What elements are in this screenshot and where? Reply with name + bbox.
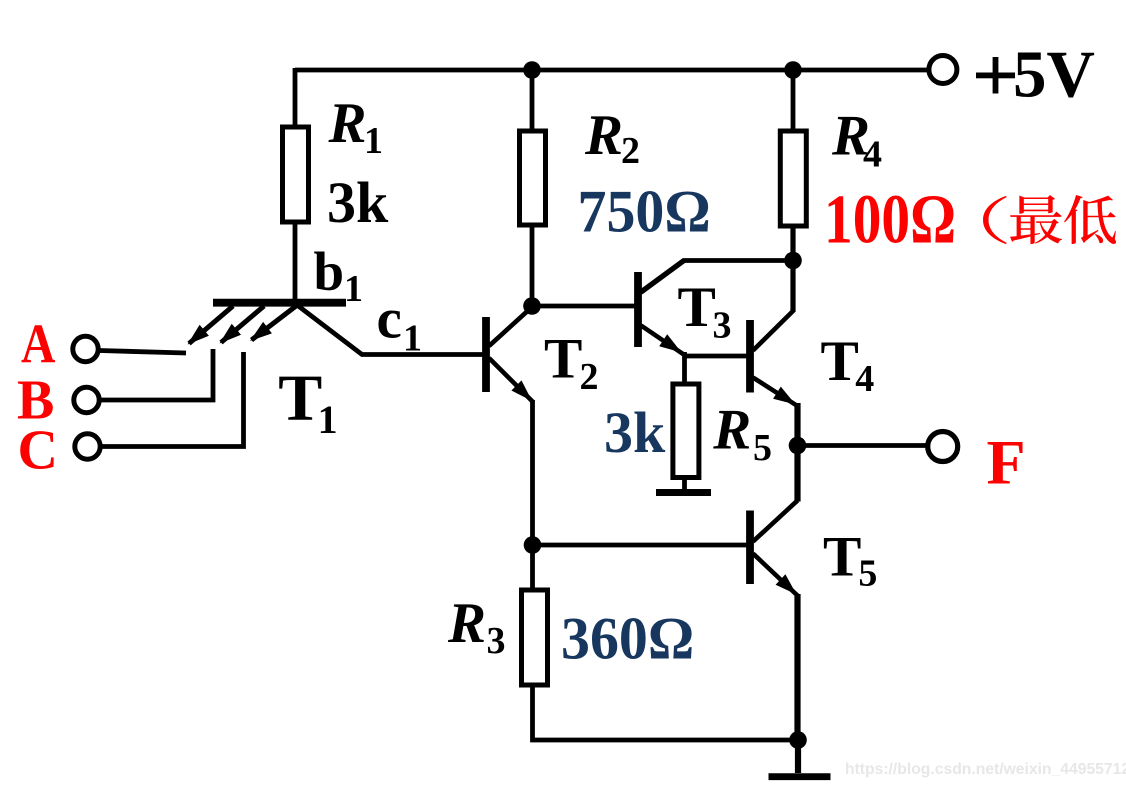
node T2 collector / R2 (523, 297, 541, 315)
label 750ohm (578, 178, 711, 245)
label c1 (377, 288, 423, 360)
svg-text:T: T (278, 362, 322, 435)
svg-text:R: R (447, 592, 486, 655)
wire input B (100, 349, 213, 400)
svg-text:5V: 5V (1013, 38, 1095, 112)
label T1 (278, 362, 337, 443)
transistor T2 collector (489, 307, 533, 347)
terminal +5V circle (929, 56, 957, 84)
svg-text:750Ω: 750Ω (578, 178, 711, 245)
label +5V (976, 38, 1095, 112)
svg-text:R: R (712, 399, 751, 462)
transistor T4 base bar (746, 320, 754, 393)
svg-text:2: 2 (580, 356, 599, 398)
svg-text:3: 3 (713, 305, 732, 347)
svg-text:R: R (584, 104, 623, 167)
label zui CJK (1010, 195, 1062, 244)
wire input A (99, 351, 186, 354)
svg-text:5: 5 (753, 427, 772, 469)
label 360ohm (561, 605, 694, 672)
terminal B circle (74, 387, 99, 412)
wire T4 emitter to output node (794, 403, 800, 446)
svg-text:c: c (377, 288, 402, 351)
wire R1 top lead (293, 68, 298, 127)
node T3 collector / R4 (784, 252, 802, 270)
wire T5 base node down to R3 (530, 545, 535, 589)
svg-text:4: 4 (863, 134, 882, 176)
svg-text:100Ω: 100Ω (824, 180, 956, 258)
label T5 (823, 526, 877, 595)
svg-text:C: C (18, 420, 58, 482)
transistor T5 emitter (753, 554, 799, 597)
label T4 (821, 330, 875, 400)
terminal F circle (928, 432, 958, 462)
wire input C (100, 352, 244, 447)
svg-text:360Ω: 360Ω (561, 605, 694, 672)
ground below R5 (656, 477, 711, 493)
wire T3 emitter node down to R5 (682, 352, 687, 384)
ground bottom (769, 773, 831, 780)
transistor T1 base bar (213, 299, 346, 307)
watermark (845, 761, 1126, 778)
svg-text:2: 2 (621, 130, 640, 172)
wire R2 bottom lead (530, 225, 535, 306)
wire T5 base node to T5 base (533, 543, 747, 548)
label B (17, 370, 54, 432)
svg-text:5: 5 (858, 553, 877, 595)
transistor T5 base bar (746, 511, 754, 585)
label R1 (328, 92, 384, 162)
transistor T3 emitter (641, 326, 685, 356)
svg-text:3k: 3k (604, 400, 666, 465)
label R4 (831, 105, 882, 176)
label T2 (544, 328, 599, 399)
resistor R1 3k body (283, 127, 309, 222)
svg-text:1: 1 (364, 120, 383, 162)
svg-text:https://blog.csdn.net/weixin_4: https://blog.csdn.net/weixin_44955712 (845, 761, 1126, 778)
wire T3 collector to R4 node (641, 261, 796, 293)
label C (18, 420, 58, 482)
wire T2 collector node to T3 base (532, 304, 635, 309)
label R2 (584, 104, 640, 172)
svg-text:T: T (823, 526, 861, 589)
svg-text:F: F (987, 427, 1026, 498)
svg-text:1: 1 (318, 397, 338, 442)
label R5 (712, 399, 772, 470)
label T3 (678, 276, 732, 347)
transistor T3 base bar (634, 272, 642, 347)
terminal C circle (75, 434, 100, 459)
wire ground stub below T5 (795, 740, 801, 773)
wire top +5V rail (295, 68, 929, 73)
wire T5 emitter down to ground node (794, 594, 800, 741)
wire node b1 to T2 base (c1 wire) (297, 305, 483, 355)
wire output node to terminal F (798, 443, 929, 448)
node output F (789, 437, 807, 455)
label 3k of R5 (604, 400, 666, 465)
svg-text:3: 3 (487, 620, 506, 662)
svg-text:A: A (21, 314, 56, 375)
transistor T3 collector (641, 261, 685, 293)
transistor T2 base bar (482, 317, 490, 392)
wire R4 bottom lead to T4 collector (790, 226, 795, 312)
label F (987, 427, 1026, 498)
resistor R3 360ohm body (522, 590, 548, 685)
svg-text:T: T (678, 276, 716, 339)
svg-text:T: T (821, 330, 859, 393)
wire output node down to T5 collector (794, 445, 800, 502)
label fullwidth paren (983, 196, 1007, 244)
transistor T4 emitter (753, 378, 798, 407)
node top rail / R4 (784, 61, 802, 79)
transistor T2 emitter (489, 358, 534, 403)
resistor R4 100ohm body (780, 131, 806, 226)
svg-text:4: 4 (855, 358, 874, 400)
label R3 (447, 592, 506, 662)
svg-text:T: T (544, 328, 582, 391)
node ground rail (789, 731, 807, 749)
resistor R5 3k body (673, 384, 699, 478)
terminal A circle (73, 336, 98, 361)
label b1 (314, 241, 364, 310)
resistor R2 750ohm body (520, 131, 546, 225)
label A (21, 314, 56, 375)
svg-text:3k: 3k (327, 170, 389, 235)
wire R3 bottom to ground rail (533, 685, 800, 740)
svg-text:R: R (328, 92, 367, 155)
transistor T4 collector (753, 311, 794, 351)
svg-text:1: 1 (403, 318, 422, 360)
wire R1 bottom lead (293, 222, 298, 303)
transistor T5 collector (753, 501, 798, 542)
wire T2 emitter down to T5 base node (530, 400, 535, 546)
label 3k of R1 (327, 170, 389, 235)
transistor T1 emitter 1 (188, 306, 234, 345)
svg-text:b: b (314, 241, 345, 302)
wire R4 top lead (791, 70, 796, 131)
wire T3 emitter node to T4 base (684, 354, 747, 359)
svg-text:1: 1 (344, 268, 363, 310)
transistor T1 emitter 3 (250, 306, 296, 341)
transistor T1 emitter 2 (220, 306, 265, 344)
wire R2 top lead (530, 70, 535, 131)
label di CJK (1064, 195, 1116, 244)
node top rail / R2 (523, 61, 541, 79)
node T5 base / R3 (524, 536, 542, 554)
label 100ohm red (824, 180, 956, 258)
